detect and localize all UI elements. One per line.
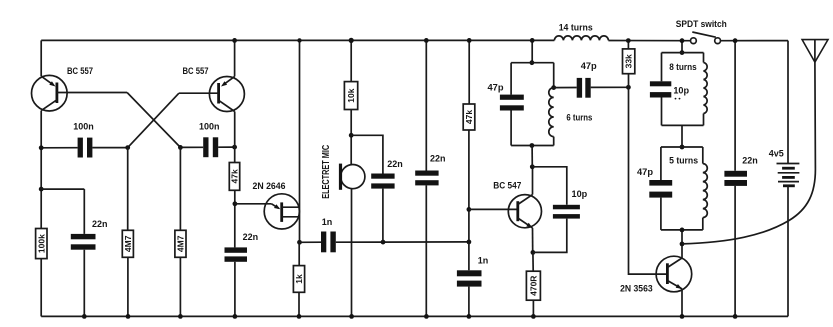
svg-text:22n: 22n	[243, 232, 259, 243]
junction dot bottom rail / 470R R8	[531, 314, 536, 319]
wire tank2 left edge upper	[661, 53, 663, 82]
svg-text:10p: 10p	[673, 86, 689, 97]
wire BC547 collector up to tank junction	[532, 167, 534, 195]
svg-text:10k: 10k	[346, 88, 356, 102]
svg-text:6 turns: 6 turns	[566, 113, 592, 124]
inductor L4 5 turns	[703, 164, 708, 218]
junction dot UJT base1 / 1n wire	[297, 240, 302, 245]
svg-text:2N 3563: 2N 3563	[620, 284, 653, 295]
capacitor C12 10p	[650, 81, 671, 97]
svg-text:BC 557: BC 557	[67, 66, 93, 77]
svg-text:22n: 22n	[742, 156, 758, 167]
wire Q1 base horizontal	[57, 92, 127, 94]
junction dot top rail / UJT column	[297, 38, 301, 42]
wire 10k junction to 22n C6 column	[351, 135, 383, 173]
wire battery column upper	[787, 41, 789, 164]
capacitor C5 1n	[321, 232, 336, 253]
wire UJT base2 column from top rail	[299, 40, 301, 242]
wire 10k column from top rail	[350, 40, 352, 81]
wire left rail lower (Q1 collector to bottom rail)	[40, 111, 42, 229]
wire 47k R7 column from top rail	[468, 40, 470, 104]
wire diagonal Q2 base to left 100n junction	[128, 93, 179, 147]
svg-text:14 turns: 14 turns	[559, 23, 593, 34]
wire diagonal Q1 base to right 100n junction	[127, 93, 180, 148]
svg-text:5 turns: 5 turns	[669, 156, 698, 167]
junction dot C2 right / Q2 collector	[232, 145, 237, 150]
wire emitter junction to 470R	[532, 252, 534, 271]
svg-text:BC 547: BC 547	[493, 181, 521, 192]
wire UJT emitter from 47k junction	[235, 204, 280, 210]
wire 10p C9 bottom wire to emitter junction	[533, 219, 567, 253]
svg-text:SPDT switch: SPDT switch	[676, 19, 727, 30]
wire tank1 bottom edge	[511, 145, 554, 147]
wire 22n C4 to bottom rail	[234, 262, 236, 317]
wire tank2 top edge	[662, 52, 704, 54]
wire 22n C14 down to bottom rail	[734, 186, 736, 317]
svg-text:33k: 33k	[624, 54, 634, 68]
capacitor C3 22n	[71, 234, 96, 250]
svg-text:4v5: 4v5	[769, 149, 785, 160]
wire 22n C3 branch vertical lower	[83, 250, 85, 317]
junction dot 1n wire / 22n column	[381, 240, 386, 245]
capacitor C4 22n	[225, 247, 248, 261]
capacitor C14 22n	[724, 171, 747, 186]
wire 22n C3 branch horizontal	[41, 188, 84, 190]
wire 22n C3 branch vertical upper	[83, 189, 85, 234]
wire tank2 to tank3	[681, 125, 683, 147]
svg-text:470R: 470R	[529, 276, 539, 296]
junction dot tank2 top center	[680, 50, 685, 55]
wire top rail right segment (switch to battery corner)	[721, 40, 789, 42]
svg-text:100k: 100k	[36, 234, 46, 253]
wire 4M7 R3 column lower	[179, 257, 181, 316]
wire tank3 top edge	[661, 146, 703, 148]
wire tank2 left edge lower	[661, 98, 663, 126]
wire 22n C7 down to bottom rail	[425, 185, 427, 316]
wire 10k bottom to mic	[350, 110, 352, 165]
inductor L2 6 turns	[549, 88, 554, 137]
junction dot top rail / 22n C14	[733, 38, 738, 43]
wire 33k down to 2N3563 base	[629, 74, 668, 274]
svg-text:ELECTRET MIC: ELECTRET MIC	[321, 145, 332, 199]
resistor R7 47k	[463, 104, 475, 130]
wire BC547 base from 47k column	[469, 208, 518, 210]
wire Q2 emitter column to top rail	[234, 40, 236, 76]
wire 100n C1 row left	[41, 147, 77, 149]
wire 100n C2 row right	[218, 146, 234, 148]
svg-text:22n: 22n	[92, 219, 108, 230]
svg-text:100n: 100n	[199, 122, 220, 133]
wire 22n C6 down to 1n wire junction	[382, 189, 384, 243]
junction dot bottom rail / 4M7 R3	[178, 314, 183, 319]
wire 100n C1 row right	[92, 147, 127, 149]
battery B1 4v5	[777, 164, 800, 186]
wire mic bottom to bottom rail	[351, 189, 353, 317]
svg-text:10p: 10p	[572, 189, 588, 200]
svg-text:22n: 22n	[430, 154, 446, 165]
junction dot top rail / 10k column	[349, 38, 354, 43]
junction dot collector / 10p wire / tank bottom	[530, 164, 535, 169]
resistor R2 4M7	[122, 230, 133, 257]
wire tank2 right edge upper	[703, 53, 705, 63]
wire tank2 bottom edge	[662, 124, 704, 126]
junction dot emitter / 10p bottom wire	[531, 250, 536, 255]
capacitor C13 47p	[649, 180, 672, 198]
junction dot tank3 bottom center	[680, 228, 685, 233]
wire 10p C9 top wire from collector junction	[532, 167, 567, 205]
svg-text:100n: 100n	[73, 122, 94, 133]
wire tank3 right edge lower	[702, 218, 704, 230]
wire 4M7 R2 column lower	[127, 257, 129, 316]
junction dot 1n wire end / 47k column	[467, 240, 472, 245]
junction dot tank top center	[530, 60, 535, 65]
wire top rail left segment	[41, 39, 554, 41]
transistor Q3 BC547	[508, 195, 541, 228]
junction dot bottom rail / 22n C14	[733, 314, 738, 319]
capacitor C7 22n	[415, 171, 438, 186]
wire 1n C5 row right to 47k column	[336, 241, 469, 243]
wire tank3 left edge upper	[660, 147, 662, 180]
junction dot bottom rail / mic column	[349, 314, 354, 319]
junction dot bottom rail / 2N3563 emitter	[680, 314, 685, 319]
junction dot 47k bottom / UJT emitter wire	[233, 201, 238, 206]
junction dot bottom rail / 22n C4	[233, 314, 238, 319]
wire 100n C2 row left	[180, 146, 203, 148]
wire top rail mid segment (coil to switch)	[608, 40, 690, 42]
junction dot left rail / C1	[39, 145, 44, 150]
resistor R4 47k	[229, 163, 239, 191]
junction dot top rail / tank2 feed	[680, 38, 685, 43]
junction dot C1 right / 4M7	[125, 145, 130, 150]
resistor R5 1k	[293, 266, 304, 293]
junction dot 10k / mic / 22n tap	[349, 133, 354, 138]
wire Q2 base horizontal	[179, 92, 219, 94]
svg-text:47k: 47k	[464, 110, 474, 124]
capacitor C10 47p	[500, 95, 524, 111]
svg-text:1n: 1n	[322, 217, 333, 228]
junction dot top rail / Q2 emitter	[232, 38, 237, 43]
transistor Q2 BC557	[209, 76, 244, 111]
capacitor C6 22n	[371, 174, 394, 189]
transistor U1 2N2646 unijunction	[264, 194, 299, 229]
svg-text:47p: 47p	[637, 167, 653, 178]
wire UJT junction down to 1k	[298, 242, 300, 265]
junction dot C2 left / 4M7	[178, 145, 183, 150]
wire tank2 right edge lower	[703, 114, 705, 126]
wire tank3 right edge upper	[702, 147, 704, 164]
capacitor C8 1n	[457, 270, 482, 286]
wire 1k R5 to bottom rail	[298, 292, 300, 316]
transistor Q1 BC557	[32, 75, 68, 111]
inductor L1 14 turns	[554, 36, 608, 41]
capacitor C9 10p	[553, 205, 580, 219]
junction dot tank1 bottom center	[530, 143, 535, 148]
wire 47k R7 down through base tap to 1n C8	[468, 130, 470, 270]
wire left rail below 100k	[40, 259, 42, 317]
svg-text:1k: 1k	[294, 274, 304, 284]
inductor L3 8 turns	[704, 63, 708, 114]
wire left rail upper	[40, 40, 42, 76]
resistor R9 33k	[623, 49, 635, 74]
wire Q2 collector column down to 47k	[234, 112, 236, 163]
junction dot top rail / 22n C7 column	[424, 38, 429, 43]
wire 22n C7 column from top rail	[425, 40, 427, 170]
wire 2N3563 collector up to antenna junction	[681, 230, 683, 258]
svg-text:47p: 47p	[488, 83, 504, 94]
wire battery column lower	[787, 186, 789, 317]
junction dot tank3 top center	[680, 145, 685, 150]
junction dot top rail / 47k R7 column	[467, 38, 472, 43]
wire tank3 bottom edge	[661, 229, 703, 231]
antenna ANT1	[802, 40, 828, 63]
wire tank1 bottom to collector junction	[531, 146, 533, 167]
junction dot coil top / 47p coupling	[551, 85, 556, 90]
wire tank1 left edge lower	[510, 111, 512, 146]
resistor R3 4M7	[175, 230, 186, 257]
junction dot collector / antenna wire	[680, 242, 685, 247]
wire 470R to bottom rail	[532, 300, 534, 316]
svg-text:2N 2646: 2N 2646	[253, 181, 286, 192]
wire 1n C5 row left	[300, 241, 322, 243]
wire tank1 top edge	[511, 62, 554, 64]
wire 22n C14 column from top rail	[734, 41, 736, 171]
junction dot bottom rail / 22n C3	[82, 314, 87, 319]
wire 4M7 R3 column upper	[179, 147, 181, 230]
junction dot 47p wire / 33k column	[626, 85, 631, 90]
junction dot bottom rail / 1n C8	[467, 314, 472, 319]
svg-text:BC 557: BC 557	[183, 66, 209, 77]
capacitor C1 100n	[78, 138, 93, 158]
junction dot top rail / tank feed	[530, 38, 535, 43]
svg-text:22n: 22n	[387, 159, 403, 170]
resistor R6 10k	[344, 82, 357, 110]
wire 47p C11 coupling left	[554, 87, 577, 89]
wire tank1 right edge upper	[553, 63, 555, 88]
wire 47k R4 to 22n C4	[234, 190, 236, 247]
svg-text:8 turns: 8 turns	[669, 62, 697, 73]
switch SW1 SPDT	[691, 32, 721, 44]
capacitor C11 47p	[577, 78, 591, 98]
scan speckle dots under 10p	[675, 98, 677, 100]
wire antenna lead curve to collector junction	[682, 62, 815, 244]
junction dot top rail / 33k	[626, 38, 631, 43]
capacitor C2 100n	[203, 137, 218, 157]
wire tank1 left edge upper	[510, 63, 512, 95]
resistor R1 100k	[36, 229, 47, 259]
transistor Q4 2N3563	[656, 256, 692, 292]
svg-text:4M7: 4M7	[176, 235, 186, 252]
junction dot bottom rail / 22n C7	[424, 314, 429, 319]
wire 4M7 R2 column upper	[127, 148, 129, 231]
svg-text:47k: 47k	[229, 169, 239, 183]
resistor R8 470R	[526, 271, 540, 300]
wire bottom rail	[41, 315, 788, 317]
wire 2N3563 emitter down to bottom rail	[681, 289, 683, 317]
svg-text:4M7: 4M7	[123, 235, 133, 252]
junction dot bottom rail / 4M7 R2	[126, 314, 131, 319]
wire 33k column from top rail	[627, 41, 629, 49]
wire BC547 emitter down to 470R junction	[532, 228, 534, 253]
svg-text:1n: 1n	[478, 256, 489, 267]
wire 47p C11 coupling right to 33k column	[591, 86, 629, 88]
junction dot 47k column / BC547 base wire	[467, 207, 472, 212]
microphone MIC1 electret	[339, 164, 365, 190]
wire tank2 feed from switch rail	[681, 41, 683, 53]
wire tank feed from top rail	[531, 40, 533, 62]
svg-text:47p: 47p	[581, 61, 597, 72]
junction dot bottom rail / 1k R5	[297, 314, 302, 319]
wire 1n C8 down to bottom rail	[468, 287, 470, 317]
wire tank1 right edge lower	[553, 137, 555, 146]
wire tank3 left edge lower	[660, 198, 662, 230]
junction dot left rail / 22n wire	[39, 187, 44, 192]
